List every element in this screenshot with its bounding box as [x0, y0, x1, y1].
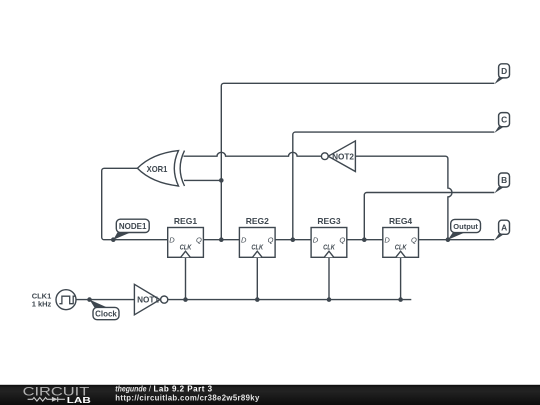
svg-text:CLK: CLK [251, 245, 264, 252]
svg-text:CLK: CLK [395, 245, 408, 252]
svg-text:Clock: Clock [95, 310, 117, 319]
svg-text:XOR1: XOR1 [147, 165, 168, 174]
svg-text:D: D [384, 236, 390, 245]
svg-text:C: C [501, 115, 507, 125]
svg-text:D: D [169, 236, 175, 245]
svg-text:1 kHz: 1 kHz [32, 299, 52, 308]
svg-text:thegunde: thegunde [115, 385, 147, 394]
svg-text:NODE1: NODE1 [119, 222, 147, 231]
svg-text:Output: Output [453, 222, 478, 231]
svg-text:REG1: REG1 [174, 216, 197, 226]
svg-text:LAB: LAB [67, 396, 91, 405]
svg-text:NOT2: NOT2 [332, 152, 354, 161]
svg-text:Q: Q [339, 236, 345, 245]
svg-text:REG4: REG4 [389, 216, 412, 226]
svg-text:D: D [501, 66, 507, 76]
svg-text:B: B [501, 175, 507, 185]
svg-text:REG3: REG3 [317, 216, 340, 226]
svg-text:A: A [501, 222, 507, 232]
svg-text:CLK: CLK [180, 245, 193, 252]
svg-text:REG2: REG2 [246, 216, 269, 226]
svg-text:Q: Q [411, 236, 417, 245]
svg-text:D: D [313, 236, 319, 245]
svg-text:Lab 9.2 Part 3: Lab 9.2 Part 3 [154, 385, 213, 394]
svg-text:D: D [241, 236, 247, 245]
svg-text:NOT1: NOT1 [137, 296, 159, 305]
svg-text:CLK: CLK [323, 245, 336, 252]
svg-text:Q: Q [196, 236, 202, 245]
svg-text:http://circuitlab.com/cr38e2w5: http://circuitlab.com/cr38e2w5r89ky [115, 393, 260, 402]
svg-text:Q: Q [268, 236, 274, 245]
